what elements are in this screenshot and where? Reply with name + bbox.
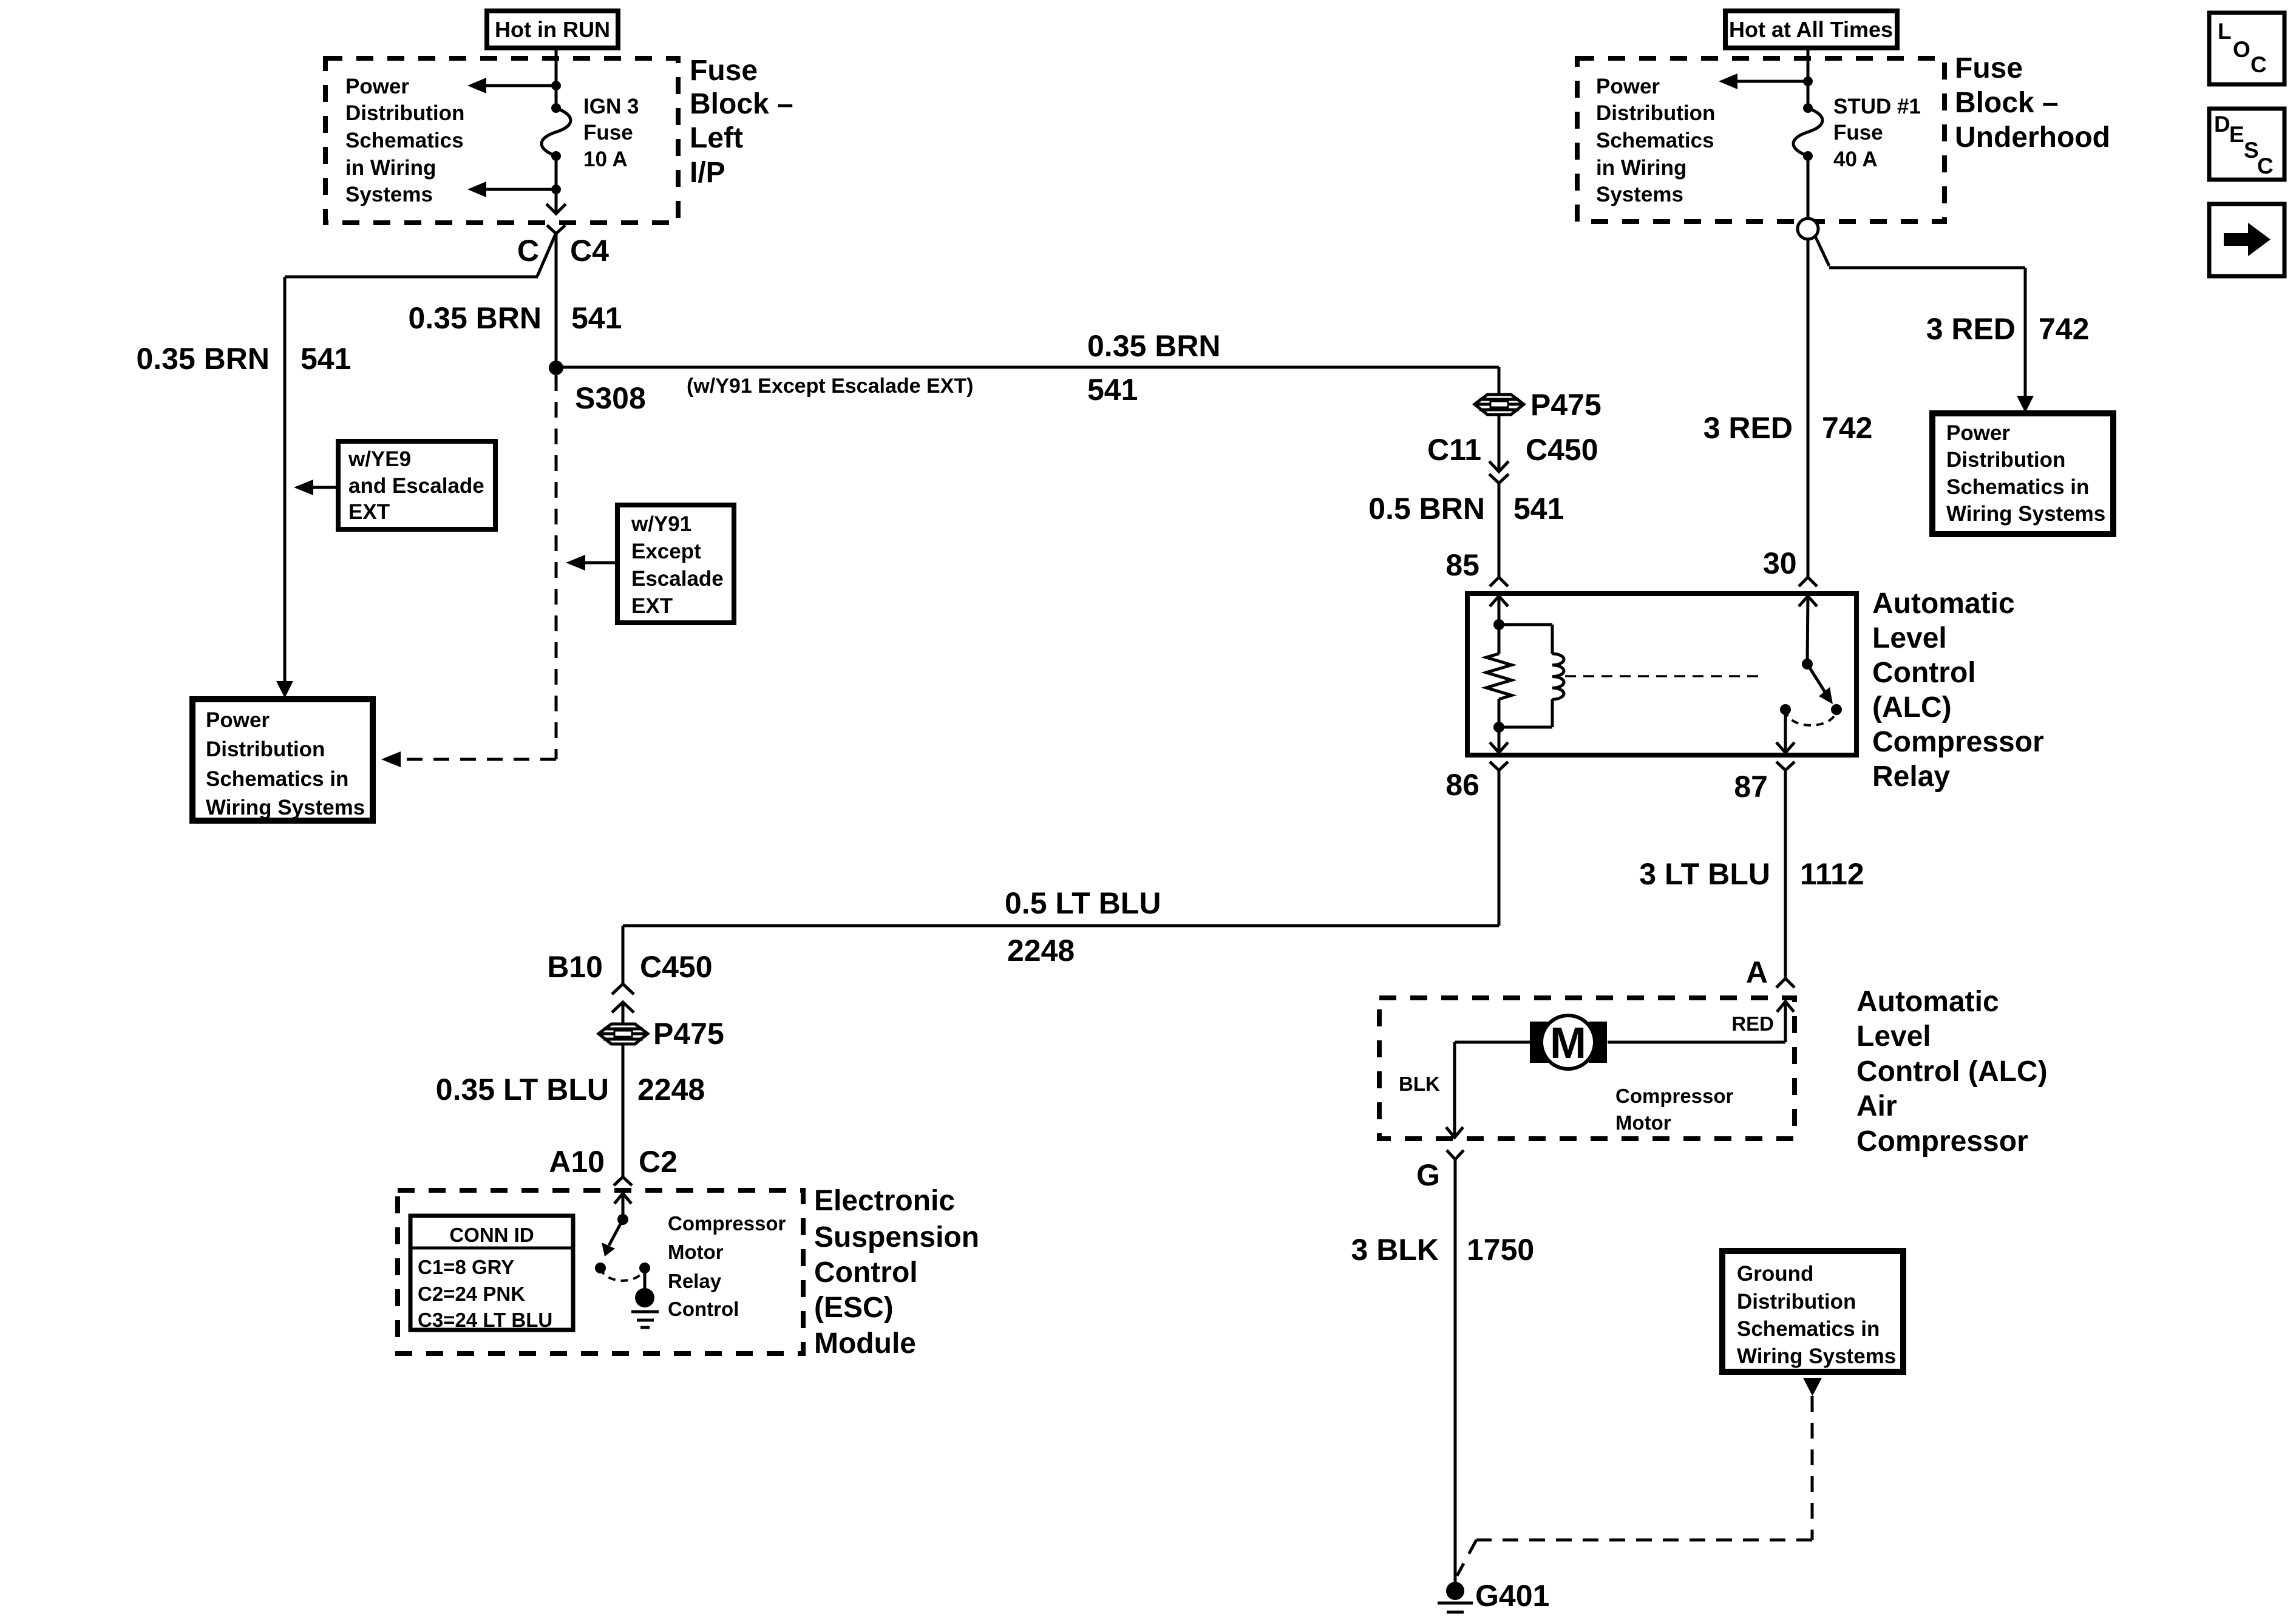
svg-text:I/P: I/P: [690, 157, 725, 189]
svg-text:Distribution: Distribution: [1946, 448, 2065, 472]
svg-text:C450: C450: [640, 950, 713, 984]
svg-text:Distribution: Distribution: [345, 101, 464, 125]
svg-text:742: 742: [1822, 411, 1872, 445]
svg-text:Compressor: Compressor: [1872, 726, 2044, 758]
svg-text:Relay: Relay: [668, 1270, 722, 1292]
svg-text:Hot at All Times: Hot at All Times: [1729, 17, 1893, 42]
svg-text:Fuse: Fuse: [1955, 52, 2023, 84]
svg-text:Wiring Systems: Wiring Systems: [206, 796, 365, 819]
svg-text:C: C: [2257, 154, 2274, 178]
svg-text:Left: Left: [690, 122, 743, 154]
svg-text:w/Y91: w/Y91: [631, 512, 691, 536]
svg-text:and Escalade: and Escalade: [348, 474, 484, 498]
svg-text:in Wiring: in Wiring: [345, 156, 436, 180]
svg-text:3 BLK: 3 BLK: [1351, 1233, 1439, 1267]
svg-text:742: 742: [2039, 312, 2089, 346]
svg-text:C: C: [2250, 52, 2267, 77]
svg-text:1750: 1750: [1467, 1233, 1534, 1267]
svg-text:P475: P475: [1530, 388, 1601, 422]
svg-text:Systems: Systems: [345, 183, 433, 206]
svg-text:Fuse: Fuse: [690, 55, 758, 87]
svg-text:Compressor: Compressor: [668, 1212, 786, 1235]
svg-text:RED: RED: [1731, 1012, 1774, 1035]
svg-text:C1=8 GRY: C1=8 GRY: [418, 1256, 514, 1278]
svg-text:85: 85: [1445, 548, 1479, 582]
svg-text:Schematics in: Schematics in: [1737, 1317, 1880, 1341]
svg-text:(ALC): (ALC): [1872, 691, 1952, 724]
svg-text:STUD #1: STUD #1: [1833, 95, 1921, 118]
svg-text:0.35 BRN: 0.35 BRN: [136, 342, 270, 376]
svg-text:0.5 BRN: 0.5 BRN: [1368, 492, 1485, 526]
svg-text:Power: Power: [1946, 421, 2010, 445]
svg-text:L: L: [2218, 19, 2232, 44]
svg-text:Schematics: Schematics: [345, 129, 464, 152]
svg-text:Power: Power: [1596, 75, 1660, 98]
svg-text:3 LT BLU: 3 LT BLU: [1639, 857, 1770, 891]
svg-text:B10: B10: [547, 950, 603, 984]
svg-text:87: 87: [1734, 770, 1768, 804]
svg-text:A10: A10: [549, 1145, 605, 1179]
svg-text:0.35 BRN: 0.35 BRN: [1087, 329, 1221, 363]
svg-text:S308: S308: [575, 381, 646, 415]
svg-text:C3=24 LT BLU: C3=24 LT BLU: [418, 1309, 552, 1331]
svg-text:Distribution: Distribution: [1596, 101, 1715, 125]
svg-text:EXT: EXT: [631, 594, 673, 618]
svg-text:541: 541: [1087, 373, 1138, 407]
svg-text:Schematics: Schematics: [1596, 129, 1714, 152]
svg-text:(w/Y91 Except Escalade EXT): (w/Y91 Except Escalade EXT): [687, 375, 973, 398]
svg-text:G401: G401: [1475, 1579, 1549, 1613]
svg-text:Block –: Block –: [1955, 87, 2059, 119]
svg-text:C450: C450: [1526, 433, 1598, 467]
svg-text:C4: C4: [570, 234, 609, 268]
svg-text:Air: Air: [1856, 1090, 1897, 1122]
svg-text:Level: Level: [1872, 622, 1947, 654]
svg-text:Module: Module: [814, 1327, 916, 1360]
svg-text:86: 86: [1445, 768, 1479, 802]
svg-text:Except: Except: [631, 540, 701, 563]
svg-text:Electronic: Electronic: [814, 1185, 955, 1217]
svg-text:0.35 BRN: 0.35 BRN: [408, 301, 542, 335]
svg-text:Systems: Systems: [1596, 183, 1683, 206]
svg-text:Power: Power: [345, 75, 409, 98]
svg-text:Underhood: Underhood: [1955, 121, 2110, 154]
svg-text:Suspension: Suspension: [814, 1221, 979, 1253]
svg-text:0.35 LT BLU: 0.35 LT BLU: [436, 1073, 609, 1107]
svg-text:w/YE9: w/YE9: [348, 447, 411, 471]
svg-text:Control: Control: [1872, 657, 1976, 689]
svg-text:C11: C11: [1427, 433, 1481, 467]
svg-text:M: M: [1550, 1019, 1586, 1068]
svg-text:3 RED: 3 RED: [1926, 312, 2016, 346]
svg-text:Compressor: Compressor: [1615, 1085, 1734, 1107]
svg-text:D: D: [2214, 112, 2230, 137]
svg-text:10 A: 10 A: [583, 147, 628, 171]
svg-text:Block –: Block –: [690, 88, 793, 120]
svg-text:Hot in RUN: Hot in RUN: [495, 17, 610, 42]
svg-text:P475: P475: [653, 1017, 724, 1051]
svg-text:C: C: [517, 234, 539, 268]
svg-text:(ESC): (ESC): [814, 1292, 894, 1324]
svg-text:Power: Power: [206, 708, 270, 732]
svg-text:EXT: EXT: [348, 500, 390, 524]
svg-text:Control (ALC): Control (ALC): [1856, 1056, 2048, 1088]
svg-text:541: 541: [1513, 492, 1564, 526]
svg-text:2248: 2248: [637, 1073, 705, 1107]
svg-text:CONN ID: CONN ID: [449, 1224, 534, 1246]
svg-text:Wiring Systems: Wiring Systems: [1946, 502, 2105, 526]
svg-text:40 A: 40 A: [1833, 147, 1878, 171]
svg-text:IGN 3: IGN 3: [583, 95, 639, 118]
svg-text:Ground: Ground: [1737, 1262, 1813, 1286]
svg-text:Fuse: Fuse: [1833, 121, 1883, 144]
svg-text:30: 30: [1763, 546, 1797, 580]
svg-text:Control: Control: [668, 1298, 739, 1320]
svg-text:0.5 LT BLU: 0.5 LT BLU: [1005, 886, 1161, 920]
svg-text:O: O: [2233, 37, 2250, 62]
svg-text:Schematics in: Schematics in: [1946, 475, 2089, 499]
svg-text:Relay: Relay: [1872, 761, 1950, 793]
svg-text:E: E: [2229, 122, 2244, 147]
svg-text:in Wiring: in Wiring: [1596, 156, 1686, 180]
svg-text:BLK: BLK: [1399, 1073, 1440, 1095]
svg-text:Control: Control: [814, 1256, 918, 1289]
svg-text:Fuse: Fuse: [583, 121, 633, 144]
svg-text:Motor: Motor: [1615, 1111, 1671, 1134]
svg-text:Escalade: Escalade: [631, 567, 724, 591]
svg-text:Schematics in: Schematics in: [206, 767, 348, 791]
svg-text:Wiring Systems: Wiring Systems: [1737, 1344, 1896, 1368]
svg-text:A: A: [1746, 955, 1768, 989]
svg-text:3 RED: 3 RED: [1703, 411, 1793, 445]
svg-text:2248: 2248: [1007, 934, 1075, 968]
svg-text:Automatic: Automatic: [1856, 986, 1999, 1018]
svg-text:C2=24 PNK: C2=24 PNK: [418, 1283, 525, 1305]
svg-text:Level: Level: [1856, 1020, 1931, 1053]
svg-text:G: G: [1416, 1158, 1440, 1192]
svg-text:Motor: Motor: [668, 1241, 724, 1263]
svg-text:Automatic: Automatic: [1872, 588, 2015, 620]
svg-text:541: 541: [571, 301, 622, 335]
svg-text:Compressor: Compressor: [1856, 1125, 2028, 1158]
svg-text:S: S: [2244, 138, 2259, 163]
svg-text:Distribution: Distribution: [206, 737, 325, 761]
svg-text:Distribution: Distribution: [1737, 1290, 1856, 1314]
svg-text:1112: 1112: [1800, 857, 1864, 891]
svg-text:541: 541: [301, 342, 351, 376]
svg-text:C2: C2: [639, 1145, 678, 1179]
